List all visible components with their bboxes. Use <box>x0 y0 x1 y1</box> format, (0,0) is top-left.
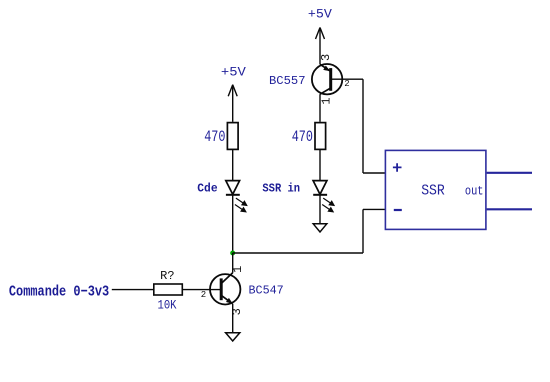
wire R3 to Q1 base <box>183 289 221 291</box>
wire junction to Q1 collector <box>232 253 234 273</box>
wire +5V to R1 <box>232 85 234 122</box>
wire Q2 collector to R2 <box>319 94 321 122</box>
svg-text:10K: 10K <box>158 297 177 312</box>
ground symbol (below D2) <box>313 224 327 232</box>
wire Q1 emitter to ground <box>232 304 234 333</box>
svg-text:SSR: SSR <box>421 183 445 200</box>
power symbol +5V (right) <box>316 28 325 40</box>
wire junction to SSR - (segment up) <box>362 209 364 253</box>
junction (green dot) <box>230 251 235 256</box>
wire Q2 base to SSR + (segment into sheet) <box>363 172 385 174</box>
ground symbol (below Q1) <box>226 333 240 341</box>
svg-text:BC547: BC547 <box>249 284 284 298</box>
sheet pin + <box>393 163 402 172</box>
wire +5V to Q2 emitter <box>319 28 321 65</box>
svg-text:2: 2 <box>344 79 349 89</box>
resistor R3 body <box>154 284 183 295</box>
hierarchical sheet SSR <box>385 150 486 229</box>
svg-text:R?: R? <box>160 270 174 283</box>
wire R1 to D1 <box>232 150 234 181</box>
wire R2 to D2 <box>319 150 321 181</box>
svg-text:470: 470 <box>204 128 225 146</box>
wire Q2 base to SSR + (segment right) <box>331 78 363 80</box>
wire Commande to R3 <box>112 289 153 291</box>
power symbol +5V (left) <box>228 85 237 97</box>
svg-text:1: 1 <box>231 266 245 273</box>
bus out (bottom) <box>487 208 532 210</box>
svg-text:3: 3 <box>319 54 333 61</box>
svg-text:470: 470 <box>292 128 313 146</box>
transistor Q2 BC557 (PNP) <box>312 64 342 94</box>
resistor R1 body <box>227 123 238 150</box>
svg-text:Cde: Cde <box>197 182 217 196</box>
svg-text:2: 2 <box>201 290 206 300</box>
svg-text:1: 1 <box>319 97 333 104</box>
wire junction to SSR - (segment right) <box>233 252 363 254</box>
LED D1 (Cde) <box>226 181 247 212</box>
svg-text:out: out <box>465 184 484 199</box>
svg-text:+5V: +5V <box>308 6 332 21</box>
bus out (top) <box>487 172 532 174</box>
LED D2 (SSR in) <box>313 181 334 212</box>
wire D2 to ground <box>319 195 321 224</box>
sheet pin - <box>394 209 402 211</box>
wire Q2 base to SSR + (segment down) <box>362 79 364 173</box>
resistor R2 body <box>315 123 326 150</box>
svg-text:+5V: +5V <box>221 64 246 79</box>
wire junction to SSR - (segment into sheet) <box>363 208 385 210</box>
transistor Q1 BC547 (NPN) <box>210 273 240 305</box>
svg-text:SSR in: SSR in <box>262 182 300 196</box>
svg-text:Commande 0−3v3: Commande 0−3v3 <box>9 283 109 300</box>
wire D1 to junction <box>232 195 234 253</box>
svg-text:BC557: BC557 <box>269 74 306 88</box>
